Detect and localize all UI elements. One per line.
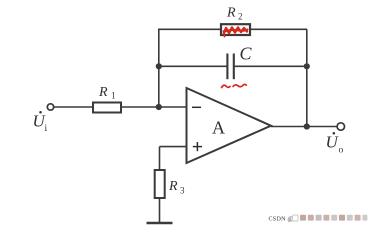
watermark CSDN: [269, 215, 368, 223]
svg-text:o: o: [339, 146, 344, 156]
output terminal circle: [337, 123, 344, 130]
svg-text:i: i: [45, 124, 48, 134]
resistor R3: [155, 170, 165, 198]
resistor R1: [93, 103, 121, 113]
wire non-inverting input horizontal: [160, 146, 187, 148]
wire R1 to inverting node: [121, 106, 187, 108]
label U_i: [33, 111, 48, 134]
red wavy annotation under capacitor: [222, 84, 247, 87]
label R3: [168, 179, 185, 196]
node dot right capacitor branch: [304, 63, 310, 69]
svg-text:CSDN @: CSDN @: [269, 217, 294, 223]
input terminal circle: [47, 104, 53, 110]
label R2: [226, 6, 243, 22]
wire R3 to ground: [159, 198, 161, 223]
node dot left capacitor branch: [156, 63, 162, 69]
svg-text:R: R: [98, 85, 108, 100]
ground: [147, 222, 173, 225]
wire capacitor branch right: [234, 65, 307, 67]
node dot output junction: [304, 123, 310, 129]
svg-text:R: R: [226, 6, 236, 21]
plus sign non-inverting: [193, 142, 202, 151]
wire top feedback left segment: [158, 28, 221, 30]
wire capacitor branch left: [159, 65, 227, 67]
wire down to R3: [159, 147, 161, 170]
svg-text:C: C: [240, 44, 253, 64]
label U_o: [326, 132, 344, 155]
wire output: [271, 126, 338, 128]
resistor R2: [221, 24, 250, 35]
node dot inverting input: [156, 104, 162, 110]
label R1: [98, 85, 116, 101]
red tick below R2 box: [224, 31, 225, 37]
svg-text:2: 2: [238, 12, 243, 22]
wire input from terminal to R1: [54, 106, 94, 108]
capacitor C plates: [227, 54, 233, 80]
op-amp A triangle: [187, 88, 272, 163]
svg-text:3: 3: [180, 186, 185, 196]
svg-text:U: U: [326, 133, 340, 152]
red scribble annotation inside R2: [224, 28, 247, 34]
svg-text:A: A: [212, 118, 225, 138]
wire feedback left vertical: [158, 29, 160, 107]
svg-text:1: 1: [111, 91, 116, 101]
svg-text:R: R: [168, 179, 178, 194]
wire top feedback right segment: [250, 28, 307, 30]
minus sign inverting: [192, 106, 201, 108]
wire feedback right vertical: [306, 29, 308, 127]
